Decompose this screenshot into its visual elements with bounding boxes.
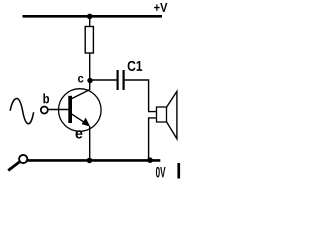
transistor Q1 emitter arrowhead: [82, 118, 91, 127]
transistor Q1 body circle: [59, 89, 102, 132]
label e: [76, 130, 83, 138]
wire: emitter vertical to 0V rail: [89, 126, 91, 160]
input terminal (0V side, open circle): [19, 155, 27, 163]
junction dot: emitter on 0V rail: [87, 158, 93, 164]
transistor Q1 base bar: [68, 96, 72, 123]
speaker LS1 driver box: [157, 107, 167, 122]
label +V: [154, 3, 167, 12]
speaker LS1 cone: [167, 91, 177, 138]
base input terminal (open circle): [41, 107, 48, 114]
transistor Q1 emitter stroke with arrow: [72, 114, 87, 124]
label b: [43, 93, 49, 103]
terminal probe tick: [8, 162, 20, 171]
junction on +V rail: [87, 14, 93, 20]
label C1: [128, 61, 143, 71]
wire: capacitor to speaker branch: [125, 80, 157, 112]
wire: +V supply rail: [23, 15, 163, 18]
signal source sine wave: [10, 98, 33, 123]
transistor Q1 collector stroke: [72, 90, 90, 99]
resistor R1 (collector load): [85, 27, 93, 54]
capacitor C1 left plate: [116, 70, 118, 90]
wire: base lead: [48, 109, 68, 111]
node c junction dot: [87, 78, 92, 83]
wire: resistor to collector node: [89, 53, 91, 81]
wire: speaker lower lead down to 0V rail: [149, 118, 157, 160]
wire: collector vertical: [89, 81, 91, 91]
junction dot: speaker branch on 0V rail: [147, 157, 153, 163]
wire: collector node to capacitor: [90, 79, 117, 81]
cropped mark at right edge: [177, 163, 180, 179]
label c: [78, 76, 83, 83]
wire: 0V rail: [28, 159, 161, 162]
label 0V: [156, 167, 166, 178]
capacitor C1 right plate: [122, 70, 124, 90]
wire: rail to resistor: [89, 16, 91, 26]
